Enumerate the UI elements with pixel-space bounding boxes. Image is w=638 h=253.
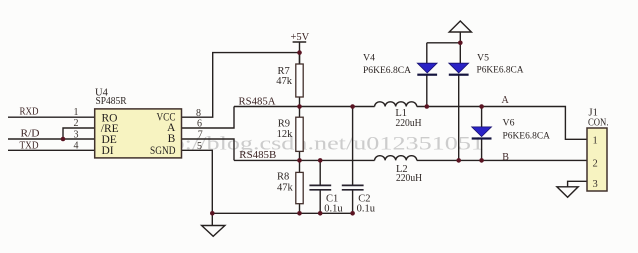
svg-text:DI: DI [102,145,114,157]
wire V6 leads [481,107,483,161]
svg-text:7: 7 [198,130,203,141]
node C1 bottom [318,211,323,216]
node C2 bottom [350,211,355,216]
svg-text:B: B [502,152,509,163]
resistor R8 [296,172,303,203]
inductor L2 [375,156,417,161]
svg-text:1: 1 [593,136,598,147]
wire V4 leads [426,43,428,107]
wire ground rail bottom [212,212,352,214]
wire J1 pin3 to ground [568,181,587,187]
wire top ground branch [427,32,461,63]
svg-text:RS485A: RS485A [239,96,277,107]
svg-text:B: B [168,133,176,145]
resistor R9 [296,117,303,151]
svg-text:47k: 47k [277,182,294,193]
node SGND rail junction [210,211,215,216]
node R8 bottom [297,211,302,216]
svg-text:12k: 12k [277,129,294,140]
ground (J1 pin3) [557,187,578,198]
svg-text:P6KE6.8CA: P6KE6.8CA [477,65,524,75]
svg-text:220uH: 220uH [396,118,422,129]
wire A line right of L1 [417,107,587,140]
svg-text:3: 3 [74,129,79,140]
diode V6 [472,127,492,140]
resistor R7 [296,64,303,97]
svg-text:6: 6 [197,119,202,130]
svg-text:A: A [502,95,510,106]
wire V5 leads [458,75,460,161]
svg-text:2: 2 [74,118,79,129]
wire /RE branch to pin2 [63,128,95,139]
svg-text:P6KE6.8CA: P6KE6.8CA [363,66,411,76]
node RS485B wire (B line left) [234,159,375,161]
capacitor C1 plates [309,185,331,189]
node C1 on B [318,158,323,163]
svg-text:47k: 47k [276,76,293,87]
wire R8 leads [299,160,301,213]
node R9/R8 on B [297,158,302,163]
node top ground junction [458,41,463,46]
node V6 on B [479,158,484,163]
inductor L1 [375,102,417,107]
wire pin7 B down [182,139,235,160]
wire R/D to pin3 [8,138,95,140]
node RS485A wire (A line left) [234,106,375,108]
svg-text:+5V: +5V [291,32,310,43]
svg-text:CON.: CON. [588,118,609,129]
wire R7 bottom lead [299,97,301,107]
capacitor C1 leads [319,160,321,213]
wire TXD to pin4 [8,149,95,151]
+5V power bar [293,42,307,64]
wire pin6 A up [182,107,235,129]
svg-text:R9: R9 [278,118,290,129]
wire RXD to pin1 [8,116,95,118]
svg-text:R/D: R/D [21,129,40,140]
node +5V junction [297,50,302,55]
svg-text:TXD: TXD [20,140,39,151]
capacitor C2 plates [342,185,364,189]
svg-text:V5: V5 [477,53,489,64]
svg-text:1: 1 [74,107,79,118]
wire pin5 SGND down [182,150,213,213]
wire R9 leads [299,107,301,161]
connector J1 body [587,128,607,191]
capacitor C2 leads [352,107,354,214]
svg-text:V4: V4 [363,53,375,64]
svg-text:220uH: 220uH [396,173,422,184]
svg-text:http://blog.csdn.net/u01235105: http://blog.csdn.net/u012351051 [144,134,484,155]
svg-text:4: 4 [74,141,79,152]
svg-text:RXD: RXD [20,107,39,118]
svg-text:0.1u: 0.1u [357,204,376,215]
wire B line right of L2 [417,159,587,161]
diode V4 [417,63,437,76]
node A/R7/R9 [297,104,302,109]
svg-text:0.1u: 0.1u [324,204,343,215]
svg-text:SGND: SGND [150,145,176,157]
svg-text:P6KE6.8CA: P6KE6.8CA [503,132,551,142]
ground (top, V4/V5) [449,21,471,32]
svg-text:5: 5 [197,141,202,152]
svg-text:RS485B: RS485B [239,150,276,161]
svg-text:SP485R: SP485R [96,96,127,107]
diode V5 [449,63,469,76]
ground (SGND bottom) [202,213,225,236]
node V6 on A [479,104,484,109]
svg-text:3: 3 [593,179,598,190]
wire pin8 VCC to +5V [182,53,300,118]
svg-text:V6: V6 [503,118,515,129]
svg-text:2: 2 [593,158,598,169]
node R/D junction [61,137,66,142]
wire R7 top lead [299,53,301,64]
node V4 on A [425,104,430,109]
op-amp U4 IC body [95,109,182,158]
node C2 on A [350,104,355,109]
svg-text:R8: R8 [277,171,289,182]
svg-text:8: 8 [196,108,201,119]
node V5 on B [456,158,461,163]
